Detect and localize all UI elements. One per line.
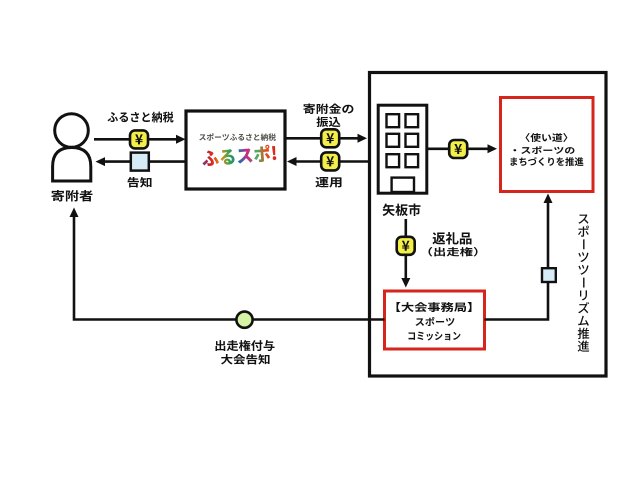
wire donor to furuspo (arrow right) [94, 135, 186, 144]
label 告知 [128, 177, 152, 188]
yen icon Y2 [321, 129, 339, 147]
outer frame (city) [370, 73, 607, 377]
secretariat red box 大会事務局 [385, 291, 485, 349]
label 寄附金の振込 [304, 104, 354, 127]
yen icon Y1 [130, 130, 148, 148]
wire furuspo to donor (arrow left, 告知) [96, 157, 186, 166]
label 返礼品（出走権） [429, 232, 478, 256]
label 出走権付与 大会告知 [216, 340, 275, 365]
logo small text スポーツふるさと納税 [199, 133, 276, 141]
wire city to usage box (arrow right) [427, 144, 497, 153]
vertical label スポーツツーリズム推進 [578, 214, 590, 351]
label 矢板市 [383, 204, 421, 216]
wire secretariat to donor (long, up arrow) [70, 208, 385, 320]
yen icon Y5 [397, 237, 415, 255]
usage box text [511, 133, 584, 166]
building (city hall) [378, 105, 427, 193]
notice icon (light blue square) B1 [131, 153, 149, 171]
wire city down to secretariat (arrow down, 返礼品) [401, 219, 410, 288]
label 寄附者 [52, 190, 93, 201]
event node (green circle) [236, 312, 252, 328]
logo ふるスポ! (rainbow) [201, 144, 276, 167]
usage red box 使い道 [501, 98, 594, 192]
wire furuspo to city (arrow right, 振込) [286, 134, 367, 143]
yen icon Y4 [449, 140, 467, 158]
label ふるさと納税 [108, 112, 174, 123]
donor person icon [53, 114, 91, 181]
yen icon Y3 [321, 152, 339, 170]
wire city to furuspo (arrow left, 運用) [287, 157, 368, 166]
tourism icon (light blue square) B2 [542, 268, 556, 282]
wire secretariat to usage box (up arrow, tourism) [485, 194, 553, 320]
furuspo logo box [186, 111, 285, 189]
label 運用 [316, 177, 342, 187]
secretariat box text [397, 302, 472, 341]
